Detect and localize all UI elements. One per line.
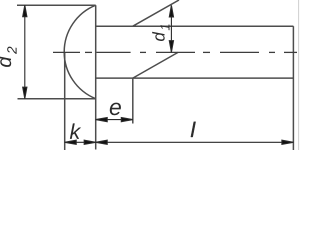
e arrowhead left (96, 118, 108, 122)
l arrowhead left (96, 140, 108, 144)
l arrowhead right (282, 140, 294, 144)
e arrowhead right (121, 118, 133, 122)
shank end face / l extension line (292, 26, 294, 150)
d2 dimension line (24, 5, 26, 99)
e extension line (132, 78, 134, 123)
label l (191, 122, 196, 137)
d1 bottom oblique extension line (133, 52, 178, 78)
k extension line from dome apex (64, 52, 66, 150)
d1 arrowhead top (169, 5, 173, 17)
label d1 (rotated) (152, 24, 169, 41)
head flat face / extension line down to k-l dimension (95, 5, 97, 149)
d1 dimension line (170, 5, 172, 52)
d1 arrowhead bottom (169, 41, 173, 53)
d1 top oblique extension line (133, 0, 179, 26)
shank top edge (96, 25, 294, 27)
label d2 (rotated) (0, 47, 17, 67)
k arrowhead left (65, 140, 77, 144)
label k (70, 123, 81, 139)
e dimension line (96, 119, 133, 121)
head bottom edge / d2 bottom extension line (18, 98, 96, 100)
head top edge / d2 top extension line (17, 4, 96, 6)
centerline (axis of rivet) (53, 51, 297, 53)
label e (110, 103, 121, 116)
k and l chained dimension line (65, 141, 294, 143)
k arrowhead right (84, 140, 96, 144)
d2 arrowhead top (23, 5, 27, 17)
shank bottom edge (96, 77, 294, 79)
d2 arrowhead bottom (23, 87, 27, 99)
head dome arc (64, 5, 96, 99)
faint border line at right image edge (298, 0, 300, 150)
